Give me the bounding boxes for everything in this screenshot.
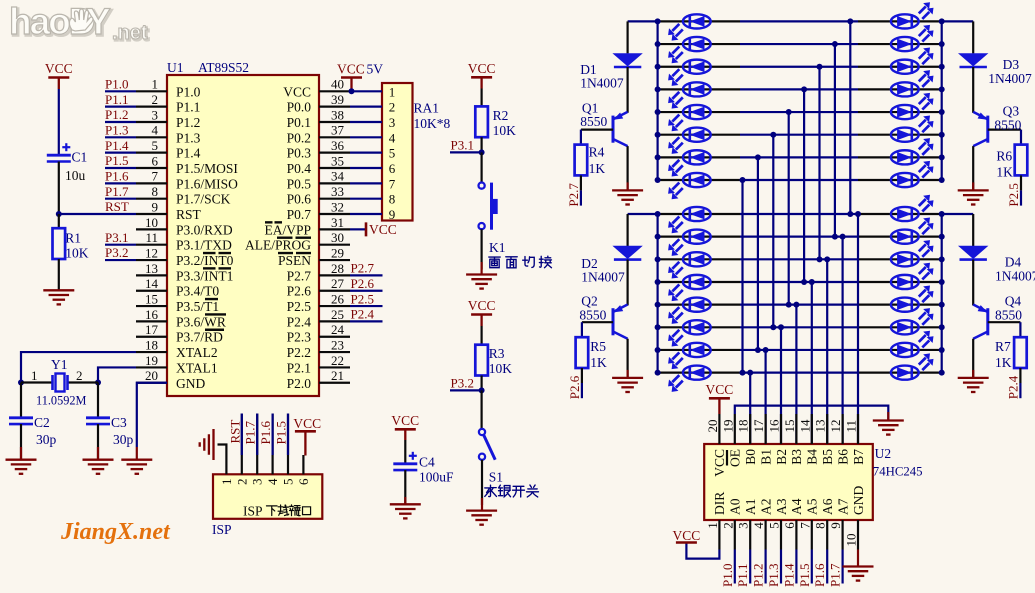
svg-text:17: 17 [145, 322, 159, 337]
svg-text:VCC: VCC [468, 61, 496, 76]
svg-text:4: 4 [265, 478, 280, 485]
svg-text:P0.7: P0.7 [287, 207, 312, 222]
ground (below C4) [390, 504, 421, 518]
resistor R1 body [53, 228, 66, 259]
ground (below K1) [466, 275, 497, 289]
svg-text:12: 12 [145, 245, 158, 260]
svg-text:P1.3: P1.3 [176, 130, 201, 145]
capacitor C3 [86, 418, 110, 424]
wire collector Q3 to ground [972, 146, 974, 190]
svg-text:GND: GND [851, 486, 866, 515]
junction column 8 top [847, 18, 853, 24]
LED bottom group row1 right [891, 195, 934, 221]
svg-text:6: 6 [152, 153, 159, 168]
wire column 7 (scan line) [834, 44, 836, 237]
svg-text:B2: B2 [774, 449, 789, 465]
wire column 2 (scan line) [757, 157, 759, 350]
wire RST node to R1 [58, 214, 60, 228]
svg-text:P1.6: P1.6 [258, 421, 273, 445]
svg-text:U1: U1 [167, 60, 184, 75]
wire XTAL1 net [98, 367, 136, 382]
wire collector Q2 to ground [626, 339, 628, 378]
ground (ISP pin1, sideways) [200, 429, 214, 460]
wire collector Q1 to ground [626, 146, 628, 190]
wire base of Q3 to R6 [988, 129, 1021, 131]
svg-text:1N4007: 1N4007 [580, 75, 624, 90]
junction column 3 bottom [770, 324, 776, 330]
svg-text:U2: U2 [875, 446, 892, 461]
LED bottom group row3 right [891, 240, 934, 266]
RA1 pin numbers 1-9 [389, 84, 396, 222]
svg-text:4: 4 [751, 522, 766, 529]
wire column 1 to U2 B0 [749, 373, 751, 444]
watermark logo haoDY.net [9, 1, 149, 46]
VCC [468, 61, 496, 89]
power symbol VCC 5V [341, 78, 362, 92]
svg-text:P0.0: P0.0 [287, 100, 312, 115]
bus bottom group left vertical [656, 214, 658, 373]
svg-text:PSEN: PSEN [278, 253, 311, 268]
junction VCC on pin40 wire [349, 88, 355, 94]
LED bottom group row7 left [668, 343, 711, 369]
U2 bottom pin names DIR A0-A7 GND [712, 486, 866, 515]
svg-text:3: 3 [152, 107, 159, 122]
wire collector Q4 to ground [972, 339, 974, 378]
ISP pin 2 wire RST [241, 414, 243, 475]
svg-text:P0.5: P0.5 [287, 176, 312, 191]
wire top group row6 [658, 134, 740, 136]
svg-text:1K: 1K [995, 355, 1012, 370]
svg-text:10K: 10K [493, 123, 516, 138]
wire C1 to RST node [58, 162, 60, 215]
U1 left pin numbers 1-20 [145, 77, 159, 383]
svg-text:P0.4: P0.4 [287, 161, 312, 176]
wire R1 to ground [58, 259, 60, 290]
wire top group row2 [658, 43, 740, 45]
svg-text:5V: 5V [367, 62, 384, 77]
LED top group row4 right [891, 70, 934, 96]
svg-text:R1: R1 [65, 231, 81, 246]
svg-text:20: 20 [145, 368, 158, 383]
ISP pin 4 wire P1.6 [272, 414, 274, 475]
wire rail to diode D2 [626, 214, 628, 246]
transistor Q3 8550 [973, 112, 988, 146]
U1 port wires P1.0-P1.7 [105, 91, 136, 198]
svg-text:26: 26 [331, 291, 345, 306]
svg-text:B4: B4 [805, 449, 820, 465]
LED top group row7 left [668, 150, 711, 176]
wire VCC to C1 [58, 89, 60, 155]
svg-text:B1: B1 [758, 449, 773, 465]
svg-text:C3: C3 [111, 415, 127, 430]
LED bottom group row3 left [668, 252, 711, 278]
svg-text:A5: A5 [805, 498, 820, 515]
U1 right overbars EA PROG PSEN [265, 222, 311, 253]
LED bottom group row8 right [891, 353, 934, 379]
svg-text:EA/VPP: EA/VPP [264, 222, 311, 237]
svg-text:P2.4: P2.4 [287, 314, 312, 329]
svg-text:P3.5/T1: P3.5/T1 [176, 299, 219, 314]
svg-text:35: 35 [331, 153, 344, 168]
wire P3.1 to U1 pin 11 [105, 244, 136, 246]
svg-text:AT89S52: AT89S52 [198, 60, 249, 75]
wire net P3.1 [450, 151, 482, 153]
S1 label 水银开关 [485, 485, 497, 496]
svg-text:P2.5: P2.5 [351, 291, 374, 306]
svg-text:4: 4 [152, 123, 159, 138]
wire column 5 (scan line) [803, 89, 805, 282]
svg-text:10K: 10K [65, 246, 89, 261]
wire top group row5 [658, 111, 740, 113]
LED bottom group row2 left [668, 230, 711, 256]
svg-text:2: 2 [152, 92, 159, 107]
LED top group row2 right [891, 25, 934, 51]
svg-text:A4: A4 [789, 498, 804, 515]
LED top group row3 left [668, 60, 711, 86]
wire top group row3 [658, 66, 740, 68]
svg-text:P1.4: P1.4 [176, 146, 201, 161]
wire VCC to R3 [481, 326, 483, 345]
op IC U1 AT89S52 body [167, 75, 319, 396]
svg-text:R2: R2 [493, 108, 509, 123]
LED top group row5 left [668, 105, 711, 131]
svg-text:1N4007: 1N4007 [988, 71, 1032, 86]
svg-text:P0.3: P0.3 [287, 146, 312, 161]
svg-text:11: 11 [844, 420, 859, 433]
resistor R4 [575, 145, 588, 176]
wire node to K1 [481, 152, 483, 182]
U2 top pin stubs (20-11) [719, 414, 858, 444]
svg-text:P1.1: P1.1 [105, 92, 128, 107]
svg-text:P3.2/INT0: P3.2/INT0 [176, 253, 234, 268]
svg-text:Q4: Q4 [1005, 294, 1022, 309]
U2 top pin names VCC OE B0-B7 [712, 449, 866, 477]
svg-text:P2.7: P2.7 [566, 183, 581, 207]
wires and labels P2.7-P2.4 [350, 261, 383, 322]
svg-text:18: 18 [145, 337, 158, 352]
power symbol VCC (ISP pin6) [295, 431, 316, 455]
svg-text:12: 12 [828, 420, 843, 433]
svg-text:29: 29 [331, 245, 344, 260]
VCC [391, 413, 419, 440]
svg-text:P2.4: P2.4 [1005, 375, 1020, 399]
junction node P3.2 [479, 387, 485, 393]
wire column 7 to U2 B6 [841, 237, 843, 444]
LED top group row6 left [668, 128, 711, 154]
svg-text:P1.0: P1.0 [105, 77, 128, 92]
svg-text:P1.7: P1.7 [828, 563, 843, 587]
wire base of Q1 to R4 [581, 129, 613, 131]
wire R7 to port [1019, 368, 1021, 383]
svg-text:74HC245: 74HC245 [873, 465, 923, 479]
IC U2 74HC245 body [704, 444, 873, 520]
svg-text:3: 3 [389, 115, 396, 130]
svg-text:32: 32 [331, 199, 344, 214]
wire bottom group row3 [658, 258, 740, 260]
capacitor C1 plates [47, 143, 71, 161]
junction column 2 U2 branch [763, 347, 769, 353]
switch S1 mercury [479, 429, 495, 460]
LED top group row4 left [668, 82, 711, 108]
svg-text:P0.2: P0.2 [287, 130, 311, 145]
junction column 7 top [832, 41, 838, 47]
svg-text:8550: 8550 [994, 118, 1021, 133]
ground (below S1) [466, 511, 497, 525]
junction column 7 U2 branch [840, 234, 846, 240]
transistor Q1 8550 [613, 112, 628, 146]
svg-text:9: 9 [389, 207, 396, 222]
diode D1 1N4007 [612, 53, 642, 67]
junctions top group left bus [655, 18, 661, 183]
svg-text:P3.0/RXD: P3.0/RXD [176, 222, 233, 237]
svg-text:P2.5: P2.5 [1006, 183, 1021, 206]
LED top group row7 right [891, 138, 934, 164]
ground (below Q2) [612, 378, 643, 392]
svg-text:VCC: VCC [712, 449, 727, 477]
svg-text:A1: A1 [743, 499, 758, 516]
wire column 3 to U2 B2 [780, 327, 782, 444]
ground (below C2) [6, 460, 37, 474]
svg-text:VCC: VCC [468, 298, 496, 313]
wire RST net to U1 pin 9 [59, 213, 136, 215]
svg-text:R6: R6 [996, 148, 1012, 163]
svg-text:15: 15 [782, 420, 797, 433]
svg-text:P2.1: P2.1 [287, 360, 311, 375]
svg-text:24: 24 [331, 322, 345, 337]
crystal Y1 [53, 374, 68, 392]
junction column 6 bottom [817, 256, 823, 262]
power symbol VCC (U2 pin20) [706, 382, 734, 414]
wire diode to transistor Q2 [626, 260, 628, 306]
svg-text:C4: C4 [419, 455, 435, 470]
power bar VCC (pin31) [365, 222, 368, 236]
svg-text:P3.1: P3.1 [451, 138, 474, 153]
resistor R5 [576, 337, 589, 368]
svg-text:31: 31 [331, 215, 344, 230]
svg-text:18: 18 [736, 420, 751, 433]
wire base of Q2 to R5 [582, 321, 613, 323]
U2 top pin numbers 20-11 [705, 419, 859, 433]
svg-text:6: 6 [389, 161, 396, 176]
svg-text:19: 19 [145, 353, 158, 368]
wire column 6 to U2 B5 [826, 259, 828, 444]
wire column 8 to U2 B7 [857, 214, 859, 444]
wire top group row7 [658, 156, 740, 158]
svg-text:XTAL2: XTAL2 [176, 345, 218, 360]
svg-text:3: 3 [250, 479, 265, 486]
svg-text:5: 5 [389, 146, 396, 161]
junction column 1 U2 branch [747, 370, 753, 376]
ISP pin numbers 1-6 [219, 478, 311, 485]
power symbol VCC (U2 DIR) [676, 541, 697, 544]
VCC [45, 61, 73, 89]
junction column 8 U2 branch [855, 211, 861, 217]
diode D3 1N4007 [958, 53, 988, 67]
svg-text:P3.3/INT1: P3.3/INT1 [176, 268, 233, 283]
svg-text:RA1: RA1 [414, 101, 440, 116]
wire rail to diode D1 [626, 21, 628, 53]
svg-text:VCC: VCC [337, 62, 365, 77]
svg-text:6: 6 [782, 522, 797, 529]
wire column 4 to U2 B3 [795, 305, 797, 444]
U2 bottom pin numbers 1-10 [705, 522, 859, 547]
wire R3 to node P3.2 [481, 376, 483, 391]
LED bottom group row7 right [891, 331, 934, 357]
svg-text:10: 10 [844, 534, 859, 547]
svg-text:P2.5: P2.5 [287, 299, 312, 314]
svg-text:XTAL1: XTAL1 [176, 360, 218, 375]
wire U2 DIR to VCC [686, 543, 719, 559]
junction crystal pin1 [18, 380, 24, 386]
wire C4 to ground [404, 470, 406, 504]
svg-text:P1.6: P1.6 [105, 169, 129, 184]
svg-text:1: 1 [705, 522, 720, 529]
svg-text:P2.6: P2.6 [567, 375, 582, 399]
junction column 6 U2 branch [824, 256, 830, 262]
svg-text:9: 9 [828, 522, 843, 529]
ground (below R1) [43, 290, 74, 304]
wire bottom group row2 [658, 236, 740, 238]
svg-text:P1.5/MOSI: P1.5/MOSI [176, 161, 238, 176]
LED top group row8 right [891, 161, 934, 187]
svg-text:5: 5 [281, 479, 296, 486]
ground (below C3) [83, 460, 114, 474]
svg-text:P2.2: P2.2 [287, 345, 311, 360]
junction column 5 top [801, 86, 807, 92]
svg-text:P1.6/MISO: P1.6/MISO [176, 176, 238, 191]
svg-text:6: 6 [296, 478, 311, 485]
ISP pin 3 wire P1.7 [256, 414, 258, 475]
junction column 8 bottom [847, 211, 853, 217]
junction column 3 top [770, 132, 776, 138]
wires U2 A0-A7 with P1.x labels [720, 550, 843, 588]
svg-text:7: 7 [152, 169, 159, 184]
wire crystal right [67, 381, 98, 383]
svg-text:39: 39 [331, 92, 344, 107]
svg-text:RST: RST [176, 207, 202, 222]
wire crystal left [21, 381, 52, 383]
resistor R2 [475, 106, 488, 137]
wire bottom group row4 [658, 281, 740, 283]
svg-text:P3.6/WR: P3.6/WR [176, 314, 226, 329]
diode D2 1N4007 [612, 246, 642, 260]
svg-text:P2.7: P2.7 [351, 261, 375, 276]
svg-text:33: 33 [331, 184, 344, 199]
svg-text:P1.7: P1.7 [243, 421, 258, 445]
svg-text:21: 21 [331, 368, 344, 383]
svg-text:1: 1 [31, 368, 38, 383]
svg-text:P1.3: P1.3 [766, 564, 781, 587]
svg-text:37: 37 [331, 123, 345, 138]
wire R5 to port [581, 368, 583, 383]
wire S1 to ground [481, 460, 483, 505]
svg-text:10K*8: 10K*8 [414, 116, 451, 131]
wire column 6 (scan line) [818, 67, 820, 260]
svg-text:RST: RST [227, 420, 242, 444]
svg-text:P2.6: P2.6 [351, 276, 375, 291]
wire bottom group row7 [658, 349, 740, 351]
wire OE to ground [735, 406, 889, 420]
LED bottom group row5 right [891, 285, 934, 311]
svg-text:8: 8 [152, 184, 159, 199]
svg-text:30p: 30p [36, 432, 57, 447]
svg-text:A6: A6 [820, 498, 835, 515]
ground (below Q3) [958, 190, 989, 204]
svg-text:1K: 1K [589, 161, 606, 176]
svg-text:10: 10 [145, 215, 158, 230]
svg-text:S1: S1 [489, 470, 503, 485]
transistor Q4 8550 [973, 305, 988, 339]
LED bottom group row4 right [891, 263, 934, 289]
bus top group left vertical [656, 21, 658, 180]
ISP pin 5 wire P1.5 [287, 414, 289, 475]
svg-text:DIR: DIR [712, 492, 727, 515]
svg-text:VCC: VCC [706, 382, 734, 397]
diode D4 1N4007 [958, 246, 988, 260]
svg-text:16: 16 [767, 419, 782, 433]
svg-text:30p: 30p [113, 432, 134, 447]
svg-text:11: 11 [145, 230, 158, 245]
svg-text:P2.0: P2.0 [287, 376, 312, 391]
svg-text:7: 7 [389, 176, 396, 191]
svg-text:P3.4/T0: P3.4/T0 [176, 284, 219, 299]
svg-text:Y1: Y1 [51, 357, 68, 372]
svg-text:VCC: VCC [369, 222, 397, 237]
svg-text:P0.6: P0.6 [287, 192, 312, 207]
svg-text:VCC: VCC [45, 61, 73, 76]
svg-text:8550: 8550 [579, 307, 606, 322]
LED bottom group row6 right [891, 308, 934, 334]
switch K1 [479, 183, 498, 230]
wire R4 to port [580, 175, 582, 190]
junction column 1 top [740, 177, 746, 183]
svg-text:P3.1: P3.1 [105, 230, 128, 245]
wire rail to diode D4 [972, 214, 974, 246]
svg-text:B7: B7 [851, 449, 866, 465]
svg-text:VCC: VCC [673, 528, 701, 543]
svg-text:VCC: VCC [293, 416, 321, 431]
wire bottom group row5 [658, 304, 740, 306]
LED bottom group row1 left [668, 207, 711, 233]
svg-text:VCC: VCC [283, 84, 311, 99]
svg-text:P1.1: P1.1 [735, 564, 750, 587]
svg-text:23: 23 [331, 337, 344, 352]
svg-text:ISP: ISP [212, 522, 232, 537]
svg-text:P2.3: P2.3 [287, 330, 312, 345]
svg-text:2: 2 [389, 100, 396, 115]
svg-text:B0: B0 [743, 449, 758, 465]
svg-text:38: 38 [331, 107, 344, 122]
wire column 1 (scan line) [741, 180, 743, 373]
wire bottom group row1 (to diode rails) [628, 213, 658, 215]
wire column 4 (scan line) [788, 112, 790, 305]
svg-text:28: 28 [331, 261, 344, 276]
K1 label 画面切换 [489, 257, 500, 268]
junction column 2 top [755, 154, 761, 160]
svg-text:B3: B3 [789, 449, 804, 465]
svg-text:22: 22 [331, 353, 344, 368]
bus bottom group right vertical [941, 214, 943, 373]
svg-text:A7: A7 [835, 498, 850, 515]
svg-text:R4: R4 [589, 144, 605, 159]
svg-text:P3.1/TXD: P3.1/TXD [176, 238, 232, 253]
resistor R7 [1014, 337, 1027, 368]
resistor R3 [475, 345, 488, 376]
wire top group row4 [658, 88, 740, 90]
ISP pin 1 wire to ground [218, 445, 227, 475]
svg-text:P1.0: P1.0 [720, 564, 735, 587]
svg-text:R5: R5 [590, 339, 606, 354]
